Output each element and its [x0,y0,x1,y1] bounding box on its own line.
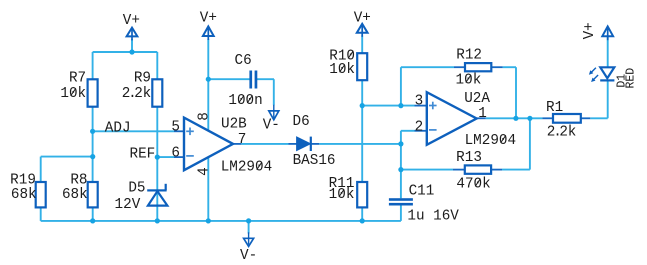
svg-text:1: 1 [478,106,487,122]
svg-text:10k: 10k [60,86,86,102]
svg-text:R1: R1 [546,100,563,116]
svg-text:C6: C6 [235,53,252,69]
svg-text:V+: V+ [582,22,598,39]
svg-text:10k: 10k [329,62,355,78]
svg-text:U2B: U2B [221,117,247,133]
svg-text:BAS16: BAS16 [293,153,336,169]
svg-text:470k: 470k [456,176,490,192]
svg-text:7: 7 [238,132,247,148]
svg-text:V+: V+ [123,13,140,29]
svg-text:REF: REF [130,146,156,162]
svg-text:V-: V- [240,248,257,264]
svg-text:100n: 100n [228,93,262,109]
svg-text:10k: 10k [329,187,355,203]
svg-text:U2A: U2A [464,91,490,107]
svg-text:V-: V- [263,117,280,133]
svg-text:RED: RED [625,68,638,89]
svg-text:2: 2 [415,119,424,135]
svg-text:10k: 10k [456,73,482,89]
svg-text:4: 4 [196,167,212,176]
svg-text:68k: 68k [62,187,88,203]
svg-text:5: 5 [171,120,180,136]
svg-text:3: 3 [415,94,424,110]
svg-text:LM2904: LM2904 [221,160,272,176]
svg-text:2.2k: 2.2k [122,86,151,102]
svg-text:D5: D5 [128,181,145,197]
svg-text:V+: V+ [354,10,371,26]
svg-text:R13: R13 [456,150,482,166]
svg-text:R9: R9 [134,71,151,87]
svg-text:V+: V+ [200,11,217,27]
svg-text:LM2904: LM2904 [465,133,516,149]
svg-text:C11: C11 [409,184,435,200]
svg-text:ADJ: ADJ [105,120,131,136]
svg-text:D6: D6 [293,114,310,130]
svg-text:8: 8 [196,112,212,121]
svg-text:R12: R12 [456,48,482,64]
svg-text:1u 16V: 1u 16V [407,209,459,225]
svg-text:2.2k: 2.2k [547,125,576,141]
svg-text:R7: R7 [69,71,86,87]
svg-text:68k: 68k [11,187,37,203]
svg-text:12V: 12V [115,197,141,213]
svg-text:6: 6 [171,145,180,161]
